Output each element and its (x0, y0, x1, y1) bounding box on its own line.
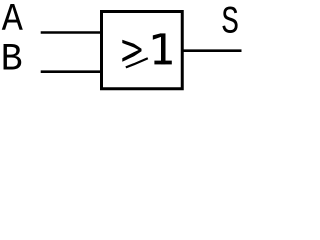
OR gate (IEC) schematic (0, 0, 242, 96)
label ">=" greater-equal sign (drawn, slanted bar) (122, 40, 141, 62)
wire input A (41, 31, 102, 34)
label digit 1 (153, 33, 172, 64)
wire output S (182, 49, 241, 52)
gate body U1 (IEC OR box) (102, 12, 183, 89)
wire input B (41, 70, 102, 73)
svg-text:B: B (1, 39, 23, 82)
svg-text:S: S (221, 1, 239, 45)
svg-text:A: A (2, 0, 24, 43)
